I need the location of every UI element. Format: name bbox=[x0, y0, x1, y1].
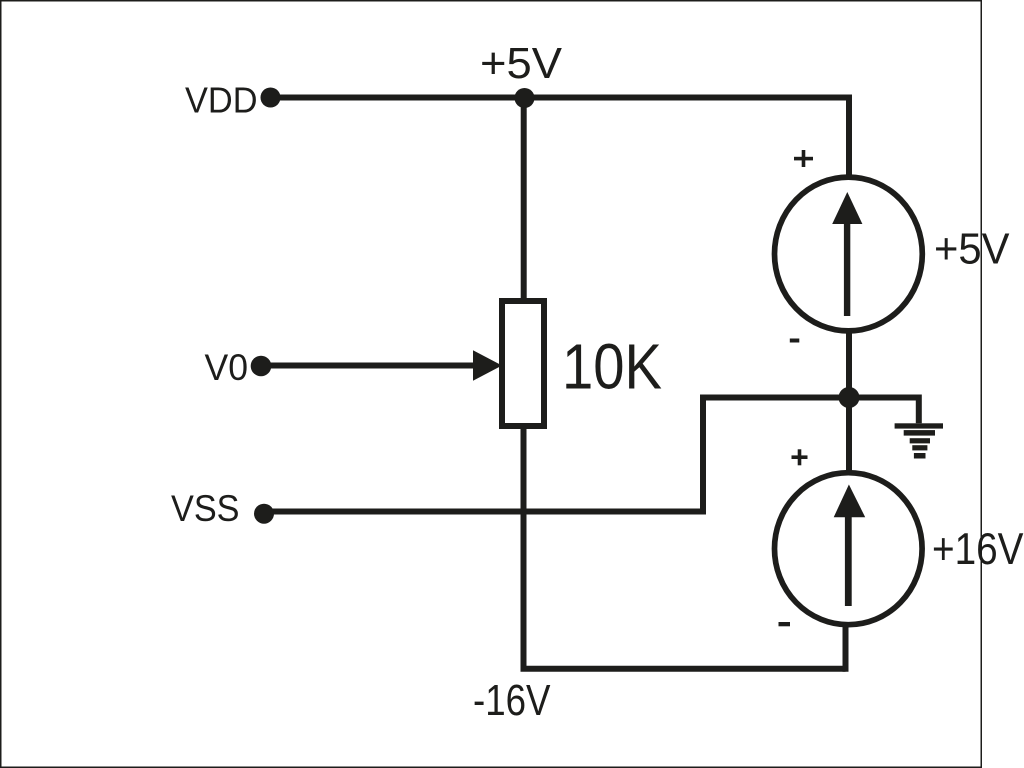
wire VSS riser vertical bbox=[700, 395, 706, 515]
svg-text:+5V: +5V bbox=[934, 226, 1010, 274]
wire ground node to ground symbol bbox=[849, 398, 922, 424]
wiper arrowhead bbox=[473, 350, 502, 380]
V1 plus sign bbox=[794, 150, 813, 167]
svg-text:VDD: VDD bbox=[185, 80, 258, 121]
wire VDD rail horizontal bbox=[270, 95, 849, 101]
svg-text:10K: 10K bbox=[562, 331, 662, 403]
current source V2 arrow bbox=[834, 485, 866, 607]
svg-text:+5V: +5V bbox=[480, 40, 562, 88]
V2 minus sign bbox=[779, 622, 791, 626]
wire potentiometer bottom down bbox=[521, 426, 527, 669]
V1 minus sign bbox=[790, 339, 800, 343]
wire bottom -16V rail bbox=[521, 666, 846, 672]
ground bbox=[895, 423, 943, 458]
wire VSS horizontal bbox=[264, 509, 706, 515]
current source V2 circle bbox=[775, 473, 923, 625]
wire VDD rail vertical down to source V1 bbox=[846, 95, 852, 179]
wire between sources V1 and V2 bbox=[846, 331, 852, 471]
svg-text:+16V: +16V bbox=[932, 525, 1024, 574]
svg-text:-16V: -16V bbox=[473, 677, 551, 725]
node VSS terminal dot bbox=[254, 504, 274, 524]
svg-text:VSS: VSS bbox=[171, 487, 240, 529]
node +5V junction dot bbox=[515, 88, 535, 108]
wire bottom rail up to source V2 minus bbox=[843, 624, 849, 672]
node VDD terminal dot bbox=[261, 88, 281, 108]
svg-text:V0: V0 bbox=[205, 347, 249, 388]
wire V0 wiper horizontal bbox=[261, 363, 473, 369]
node ground junction dot bbox=[839, 387, 860, 408]
potentiometer R1 10K body bbox=[502, 301, 544, 426]
current source V1 arrow bbox=[832, 192, 862, 316]
current source V1 circle bbox=[775, 177, 923, 331]
node V0 terminal dot bbox=[251, 356, 272, 377]
V2 plus sign bbox=[792, 449, 808, 465]
wire from +5V node down to potentiometer top bbox=[521, 98, 527, 302]
wire VSS top horizontal to ground node bbox=[703, 395, 849, 401]
